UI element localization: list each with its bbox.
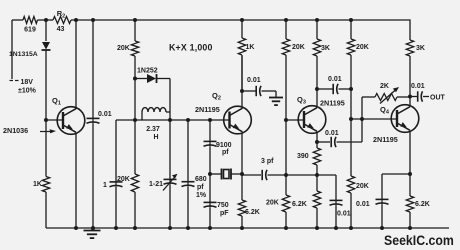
wire Q3 collector to coupling cap bbox=[317, 88, 333, 90]
capacitor 680pf 1% bbox=[182, 181, 195, 186]
junction 6.2K at rail (Q3) bbox=[315, 226, 319, 230]
label Q4 bbox=[380, 105, 390, 116]
wire base node down bbox=[350, 119, 352, 176]
junction 6.2K at rail bbox=[240, 226, 244, 230]
svg-text:20K: 20K bbox=[117, 45, 130, 52]
label 6.2K (Q3) bbox=[292, 201, 307, 208]
svg-text:0.01: 0.01 bbox=[98, 111, 112, 118]
svg-text:3K: 3K bbox=[321, 45, 330, 52]
svg-text:20K: 20K bbox=[266, 200, 279, 207]
label 680 pf 1% bbox=[195, 176, 207, 199]
svg-text:3 pf: 3 pf bbox=[261, 158, 274, 165]
junction on rail at Q3-base 20K column bbox=[284, 18, 288, 22]
svg-text:20K: 20K bbox=[356, 44, 369, 51]
junction 750pf at rail bbox=[208, 226, 212, 230]
label 1K bbox=[33, 181, 42, 188]
svg-text:2N1195: 2N1195 bbox=[195, 105, 220, 114]
wire crystal to Q2 emitter bbox=[231, 173, 242, 175]
svg-text:K+X 1,000: K+X 1,000 bbox=[169, 42, 213, 52]
label 3 pf bbox=[261, 158, 274, 165]
label 6.2K (Q2) bbox=[245, 209, 260, 216]
label 20K (lower right) bbox=[356, 183, 369, 190]
svg-text:±10%: ±10% bbox=[18, 88, 37, 95]
ground symbol (Q2 bypass) bbox=[269, 98, 283, 106]
wire to bypass cap bbox=[242, 90, 256, 92]
label 0.01 (Q3 coupling) bbox=[328, 76, 342, 83]
resistor 1K (Q2 load) bbox=[238, 38, 245, 55]
svg-text:1K: 1K bbox=[33, 181, 42, 188]
wire Q1 emitter to rail bbox=[75, 20, 77, 109]
label 0.01 (Q2 bypass) bbox=[247, 77, 261, 84]
wire Q2 emitter lead bbox=[241, 133, 243, 201]
resistor 6.2K (Q4 emitter) bbox=[406, 196, 413, 212]
svg-text:0.01: 0.01 bbox=[411, 83, 425, 90]
wire 20K column upper bbox=[285, 20, 287, 39]
transistor Q3 2N1195 (NPN) bbox=[298, 106, 326, 134]
wire Q1 collector to ground rail bbox=[75, 133, 77, 229]
svg-text:20K: 20K bbox=[292, 44, 305, 51]
wire Q3 collector lead bbox=[316, 56, 318, 108]
label 43 bbox=[57, 26, 65, 33]
svg-text:1%: 1% bbox=[196, 192, 207, 199]
wire bypass cap to ground bbox=[262, 91, 277, 97]
label 1-21 bbox=[149, 181, 163, 188]
junction Q4 collector node bbox=[408, 95, 412, 99]
crystal Y1 bbox=[222, 169, 232, 180]
svg-text:0.01: 0.01 bbox=[356, 201, 370, 208]
label 0.01 (output) bbox=[411, 83, 425, 90]
label 9100 pf bbox=[216, 142, 232, 156]
label OUT bbox=[430, 95, 446, 102]
svg-text:619: 619 bbox=[24, 27, 36, 34]
wire 20K to diode node bbox=[134, 56, 136, 79]
wire rail to 3K bbox=[316, 20, 318, 39]
capacitor 0.01 (Q3 emitter bypass) bbox=[330, 200, 343, 205]
wire 20K top column bbox=[134, 20, 136, 41]
junction on rail at Q1 emitter bbox=[74, 18, 78, 22]
resistor 1K (Q1 base bias) bbox=[42, 177, 49, 193]
svg-text:OUT: OUT bbox=[430, 95, 446, 102]
wire ground rail (bottom) bbox=[46, 227, 449, 229]
resistor 20K (Q3 base upper) bbox=[282, 39, 289, 55]
wire 20K to Q3 base node bbox=[285, 55, 287, 120]
label 2N1195 (Q3) bbox=[320, 98, 345, 107]
junction Q2 emitter node bbox=[240, 172, 244, 176]
wire 750pf lower bbox=[209, 208, 211, 229]
wire output terminal bbox=[423, 96, 429, 98]
resistor 20K (tank damping) bbox=[131, 174, 138, 192]
svg-text:390: 390 bbox=[297, 153, 309, 160]
label 619 bbox=[24, 27, 36, 34]
junction 1uf column at rail bbox=[114, 226, 118, 230]
capacitor 0.01 (Q1 output) bbox=[87, 118, 100, 123]
watermark SeekIC.com bbox=[384, 232, 454, 248]
junction Q4 base node bbox=[349, 117, 353, 121]
wire Q4 bypass to rail bbox=[381, 205, 383, 229]
junction on rail at 20K column bbox=[133, 18, 137, 22]
junction Q3 collector node bbox=[315, 87, 319, 91]
capacitor 750pF bbox=[204, 202, 217, 207]
wire Q3 emitter resistor bbox=[316, 175, 318, 191]
junction variable cap at rail bbox=[168, 226, 172, 230]
resistor 20K (Q4 base lower) bbox=[347, 176, 354, 193]
label 20K (Q3 base) bbox=[292, 44, 305, 51]
junction 9100pf column bbox=[208, 118, 212, 122]
label 0.01 (Q1 output) bbox=[98, 111, 112, 118]
svg-text:pf: pf bbox=[197, 184, 204, 191]
wire 6.2K to rail bbox=[409, 212, 411, 228]
label 1K (Q2) bbox=[246, 44, 255, 51]
resistor 3K (Q3 load) bbox=[313, 39, 320, 56]
resistor 20K (Q4 base upper) bbox=[347, 39, 354, 55]
wire Q4 base lead bbox=[351, 118, 397, 120]
variable capacitor 1-21 pf bbox=[163, 174, 178, 191]
label R2 bbox=[57, 9, 65, 20]
junction on rail at 3K column bbox=[315, 18, 319, 22]
label -18V with dashed leader bbox=[10, 79, 37, 95]
wire junction to 0.01 bypass bbox=[317, 175, 336, 200]
resistor 619 ohm bbox=[23, 17, 38, 24]
label 0.01 (Q3-Q4) bbox=[325, 130, 339, 137]
junction 20K column at rail bbox=[133, 226, 137, 230]
junction on rail at 1K column bbox=[240, 18, 244, 22]
label 2K bbox=[380, 83, 389, 90]
junction 3pf at 20K column bbox=[284, 173, 288, 177]
wire 20K bottom column bbox=[134, 120, 136, 174]
svg-text:3K: 3K bbox=[416, 45, 425, 52]
resistor 3K (Q4 load) bbox=[406, 40, 413, 56]
wire rail corner to 3K bbox=[409, 20, 410, 40]
label Q2 bbox=[212, 91, 221, 102]
label 1 bbox=[103, 182, 107, 189]
capacitor 0.01 (Q4 emitter bypass) bbox=[376, 199, 389, 204]
wire pot to collector junction bbox=[397, 96, 410, 98]
wire crystal left lead bbox=[210, 173, 221, 175]
wire 20K column top bbox=[350, 20, 352, 39]
wire 20K lower to rail bbox=[350, 193, 352, 228]
junction 20K at rail bbox=[349, 226, 353, 230]
junction bypass at rail bbox=[334, 226, 338, 230]
junction diode node bbox=[133, 77, 137, 81]
svg-text:0.01: 0.01 bbox=[325, 130, 339, 137]
junction Q4 emitter at rail bbox=[408, 226, 412, 230]
junction on rail at diode column bbox=[44, 18, 48, 22]
svg-text:0.01: 0.01 bbox=[328, 76, 342, 83]
svg-text:6.2K: 6.2K bbox=[292, 201, 307, 208]
wire 3pf to Q3 emitter node bbox=[268, 174, 318, 176]
junction Q4 bypass at rail bbox=[380, 226, 384, 230]
wire 680pf lower bbox=[187, 187, 189, 228]
diode D2 1N252 bbox=[135, 74, 170, 83]
wire pot left branch bbox=[362, 97, 375, 119]
wire 20K to rail bbox=[134, 192, 136, 228]
wire Q1 base lead bbox=[46, 119, 63, 121]
wire 1K to ground rail bbox=[45, 192, 47, 228]
svg-text:20K: 20K bbox=[356, 183, 369, 190]
label 6.2K (Q4) bbox=[415, 201, 430, 208]
junction Q4 emitter tap bbox=[408, 172, 412, 176]
label 20K (tank) bbox=[117, 176, 130, 183]
wire crystal node down bbox=[209, 174, 211, 202]
wire Q3 emitter tap to coupling cap bbox=[317, 141, 330, 143]
wire 1uf column lower bbox=[115, 187, 117, 228]
wire 9100 to crystal node bbox=[209, 147, 211, 175]
transistor Q2 2N1195 (NPN) bbox=[224, 106, 252, 134]
svg-text:6.2K: 6.2K bbox=[245, 209, 260, 216]
label 20K (lower middle) bbox=[266, 200, 279, 207]
wire 20K to Q4 base node bbox=[350, 55, 352, 119]
svg-text:2N1195: 2N1195 bbox=[320, 98, 345, 107]
inductor L1 2.37H bbox=[142, 108, 170, 120]
wire Q4 emitter lead bbox=[409, 131, 411, 196]
svg-text:750: 750 bbox=[217, 202, 229, 209]
resistor 390 (Q3 emitter) bbox=[313, 148, 320, 165]
junction 20K at rail (Q3 base) bbox=[284, 226, 288, 230]
wire base node down bbox=[285, 120, 287, 195]
label 3K (Q4) bbox=[416, 45, 425, 52]
junction Q3 emitter node bbox=[315, 173, 319, 177]
junction pot branch at base bbox=[360, 117, 364, 121]
capacitor 0.01 (output) bbox=[410, 91, 423, 101]
wire diode column lower bbox=[45, 50, 47, 177]
resistor 20K (Q3 base lower) bbox=[282, 195, 289, 212]
label K X 1,000 bbox=[169, 42, 213, 52]
wire coupling cap to 20K column bbox=[339, 88, 352, 90]
label 1N252 bbox=[137, 68, 158, 75]
junction tank node left bbox=[133, 118, 137, 122]
wire 20K lower to rail bbox=[285, 212, 287, 228]
wire rail to 1K bbox=[241, 20, 243, 91]
label 20K (top left) bbox=[117, 45, 130, 52]
capacitor 9100pf bbox=[204, 141, 217, 146]
junction 680pf column bbox=[186, 118, 190, 122]
label Q3 bbox=[297, 95, 306, 106]
diode D1 1N1315A bbox=[42, 42, 51, 50]
wire Q3 emitter lead bbox=[316, 132, 318, 148]
wire 680pf upper bbox=[187, 120, 189, 181]
wire 0.01 column upper bbox=[92, 20, 94, 119]
svg-text:0.01: 0.01 bbox=[337, 211, 351, 218]
label 2N1036 with arrow bbox=[3, 126, 56, 135]
junction Q3 base node bbox=[284, 118, 288, 122]
potentiometer 2K bbox=[375, 87, 399, 104]
junction 0.01 column at rail bbox=[91, 226, 95, 230]
resistor 6.2K (Q2 emitter) bbox=[238, 200, 245, 216]
capacitor 0.01 (Q3 collector coupling) bbox=[333, 84, 338, 94]
svg-text:20K: 20K bbox=[117, 176, 130, 183]
svg-text:43: 43 bbox=[57, 26, 65, 33]
capacitor 1 (coupling) bbox=[110, 182, 123, 187]
label 750 pF bbox=[217, 202, 229, 217]
svg-text:680: 680 bbox=[195, 176, 207, 183]
transistor Q1 2N1036 (PNP) bbox=[57, 107, 85, 135]
label 1N1315A bbox=[9, 51, 38, 58]
wire tank bus to 1uf cap bbox=[116, 119, 135, 121]
svg-text:0.01: 0.01 bbox=[247, 77, 261, 84]
label 390 bbox=[297, 153, 309, 160]
label 0.01 (Q3 emitter) bbox=[337, 211, 351, 218]
wire variable cap upper bbox=[169, 120, 171, 179]
capacitor 3pf bbox=[262, 170, 267, 180]
wire -18V input terminal bbox=[11, 20, 13, 79]
capacitor 0.01 (Q2 collector bypass) bbox=[256, 86, 261, 96]
wire variable cap lower bbox=[169, 185, 171, 229]
wire diode right down bbox=[169, 79, 171, 121]
wire 1uf column upper bbox=[115, 120, 117, 182]
junction 680pf at rail bbox=[186, 226, 190, 230]
resistor 20K (collector load Q1) bbox=[131, 41, 138, 56]
svg-text:1K: 1K bbox=[246, 44, 255, 51]
wire Q3 base lead bbox=[286, 119, 304, 121]
wire tank bus to Q2 base bbox=[135, 119, 230, 121]
junction Q1 collector at rail bbox=[74, 226, 78, 230]
wire 6.2K to rail bbox=[241, 216, 243, 228]
svg-text:2N1195: 2N1195 bbox=[373, 135, 398, 144]
svg-text:pf: pf bbox=[222, 149, 229, 156]
wire 390 to junction bbox=[316, 165, 318, 175]
svg-text:18V: 18V bbox=[21, 79, 34, 86]
wire 0.01 column lower bbox=[92, 124, 94, 229]
label 20K (Q4 base) bbox=[356, 44, 369, 51]
svg-text:pF: pF bbox=[220, 210, 229, 217]
svg-text:1-21: 1-21 bbox=[149, 181, 163, 188]
wire bypass to rail bbox=[335, 206, 337, 229]
wire Q2 emitter to 3pf bbox=[242, 174, 261, 176]
label 2N1195 (Q2) bbox=[195, 105, 220, 114]
svg-text:2K: 2K bbox=[380, 83, 389, 90]
junction Q1 base node bbox=[44, 118, 48, 122]
wire -18V top supply rail bbox=[12, 19, 409, 21]
wire 6.2K to rail bbox=[316, 208, 318, 228]
wire coupling cap up to Q4 base branch bbox=[337, 120, 363, 142]
svg-text:2.37: 2.37 bbox=[146, 126, 160, 133]
ground symbol (main) bbox=[84, 228, 101, 238]
wire diode node to tank bus bbox=[134, 79, 136, 121]
label 2.37 H bbox=[146, 126, 160, 141]
svg-text:2N1036: 2N1036 bbox=[3, 126, 28, 135]
label 3K (Q3) bbox=[321, 45, 330, 52]
label 0.01 (Q4 emitter) bbox=[356, 201, 370, 208]
label 2N1195 (Q4) bbox=[373, 135, 398, 144]
svg-text:1N1315A: 1N1315A bbox=[9, 51, 38, 58]
svg-text:6.2K: 6.2K bbox=[415, 201, 430, 208]
junction Q3 emitter tap bbox=[315, 140, 319, 144]
wire diode column upper bbox=[45, 20, 47, 41]
junction variable-cap column bbox=[168, 118, 172, 122]
junction on rail at 20K bias column bbox=[349, 18, 353, 22]
wire 9100pf upper bbox=[209, 120, 211, 142]
wire Q2 collector lead bbox=[241, 56, 243, 108]
capacitor 0.01 (Q3-Q4 coupling) bbox=[331, 137, 336, 147]
label Q1 bbox=[52, 96, 61, 107]
resistor R2 43 ohm bbox=[53, 17, 71, 24]
svg-text:H: H bbox=[153, 134, 158, 141]
junction Q2 collector bypass bbox=[240, 89, 244, 93]
svg-text:SeekIC.com: SeekIC.com bbox=[384, 232, 454, 248]
wire 3K to Q4 collector bbox=[409, 56, 411, 106]
junction on rail at 0.01 column bbox=[91, 18, 95, 22]
junction coupling at 20K column bbox=[349, 87, 353, 91]
resistor 6.2K (Q3 emitter) bbox=[313, 191, 320, 208]
junction crystal node bbox=[208, 172, 212, 176]
svg-text:9100: 9100 bbox=[216, 142, 232, 149]
transistor Q4 2N1195 (NPN) bbox=[391, 105, 419, 133]
wire emitter tap to bypass bbox=[382, 174, 410, 199]
svg-text:1: 1 bbox=[103, 182, 107, 189]
svg-text:1N252: 1N252 bbox=[137, 68, 158, 75]
